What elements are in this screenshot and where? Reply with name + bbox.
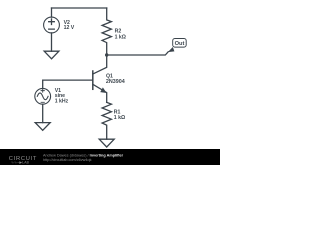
transistor Q1 xyxy=(93,55,107,102)
footer credit text xyxy=(43,153,124,162)
label Q1 2N3904 xyxy=(106,73,125,85)
svg-text:1 kHz: 1 kHz xyxy=(55,98,69,104)
label R1 1 kOhm xyxy=(114,109,125,121)
label V2 12 V xyxy=(64,20,75,31)
wire node to Out flag xyxy=(107,52,169,55)
ground under V1 xyxy=(35,123,50,131)
label R2 1 kOhm xyxy=(115,29,126,41)
svg-text:R2: R2 xyxy=(115,29,122,35)
footer bar xyxy=(0,149,220,165)
node junction dot xyxy=(105,53,108,56)
flag Out xyxy=(168,39,186,53)
svg-text:Andrew Dawes (drdawes) / Inver: Andrew Dawes (drdawes) / Inverting Ampli… xyxy=(43,153,124,157)
wire V1 to ground xyxy=(42,104,44,122)
voltage source V1 xyxy=(35,88,51,104)
svg-text:1 kΩ: 1 kΩ xyxy=(114,115,125,121)
svg-text:http://circuitlab.com/c6vw4qk: http://circuitlab.com/c6vw4qk xyxy=(43,158,92,162)
svg-text:12 V: 12 V xyxy=(64,25,75,31)
svg-text:1 kΩ: 1 kΩ xyxy=(115,35,126,41)
footer CircuitLab logo xyxy=(9,156,37,164)
resistor R2 xyxy=(102,8,111,55)
resistor R1 xyxy=(102,102,111,139)
ground under V2 xyxy=(44,51,59,59)
ground under R1 xyxy=(99,139,114,147)
wire top rail V2 to R2 xyxy=(52,7,107,9)
voltage source V2 xyxy=(44,8,60,51)
svg-text:∿∿┄▶LAB: ∿∿┄▶LAB xyxy=(11,160,30,164)
svg-text:2N3904: 2N3904 xyxy=(106,79,125,85)
wire V1 to base xyxy=(43,80,93,88)
svg-text:Out: Out xyxy=(175,41,185,47)
label V1 sine 1 kHz xyxy=(55,88,69,105)
